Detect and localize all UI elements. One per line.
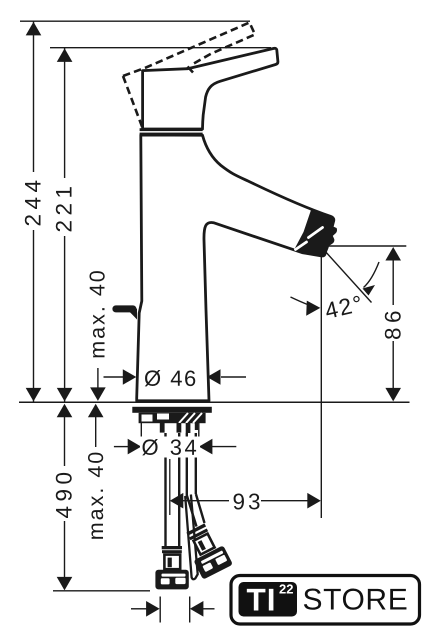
arrowhead max40 lower up <box>88 404 104 418</box>
arrowhead diameter34 left <box>128 439 142 455</box>
supply hose A right line <box>178 433 180 546</box>
42 degree arc arrow <box>364 262 380 288</box>
TI STORE logo box <box>231 576 420 625</box>
extension line top 244 <box>20 20 250 22</box>
arrowhead 244 top <box>26 22 42 36</box>
extension line top 221 <box>50 47 271 49</box>
dim line bottom width left <box>131 608 147 610</box>
svg-text:490: 490 <box>52 467 77 518</box>
extension line diameter34 right <box>198 423 200 447</box>
rod loop <box>185 495 198 580</box>
hose C connector angled <box>181 520 233 579</box>
dim line diameter34 right <box>211 446 236 448</box>
arrowhead max40 upper down <box>90 387 106 401</box>
aerator white slit 1 <box>309 228 323 238</box>
dim line bottom width right <box>202 608 215 610</box>
arrowhead 221 bottom <box>57 388 73 402</box>
tick bottom right <box>189 597 191 623</box>
dim line 93 horizontal <box>182 500 229 502</box>
pull rod thin line <box>169 459 171 515</box>
dim line 221 vertical <box>64 48 66 178</box>
dim line max40 lower <box>95 417 97 448</box>
arrowhead 490 bottom <box>57 577 73 591</box>
arrowhead diameter34 right <box>199 439 213 455</box>
handle ring lower bar <box>140 133 203 136</box>
supply hose C left line <box>186 433 188 496</box>
arrowhead bottom width left <box>146 601 160 617</box>
svg-text:221: 221 <box>52 181 77 232</box>
faucet body outline <box>137 135 334 401</box>
outlet height line <box>321 245 406 247</box>
dim line 86 vertical <box>392 259 394 305</box>
arrowhead bottom width right <box>190 601 204 617</box>
arrowhead 86 top <box>385 247 401 261</box>
spout aerator tip <box>295 210 337 256</box>
dim line diameter46 left <box>104 376 127 378</box>
hose C bend segment right <box>196 494 205 523</box>
arrowhead 490 top <box>57 404 73 418</box>
handle ring upper bar <box>140 128 203 131</box>
arrowhead 244 bottom <box>26 388 42 402</box>
mounting studs <box>160 423 198 433</box>
svg-text:TI: TI <box>246 582 276 618</box>
svg-text:max. 40: max. 40 <box>84 450 108 540</box>
arrowhead diameter46 left <box>123 369 137 385</box>
lever indicator mark <box>188 67 194 73</box>
svg-text:STORE: STORE <box>302 584 408 617</box>
hose C bend segment left <box>187 496 197 527</box>
dim line max40 upper <box>97 368 99 390</box>
tick bottom left <box>159 597 161 623</box>
arrowhead 86 bottom <box>385 388 401 402</box>
white backing for diameter 34 <box>140 437 200 458</box>
svg-text:93: 93 <box>232 489 263 514</box>
dim line 244 vertical <box>33 21 35 172</box>
pop-up rod knob <box>112 305 136 312</box>
svg-text:86: 86 <box>381 306 406 340</box>
svg-text:Ø 34: Ø 34 <box>141 435 199 460</box>
base plane line <box>19 401 410 403</box>
42 degree angled line <box>321 247 371 303</box>
hose A connector <box>155 546 188 589</box>
supply hose A left line <box>164 433 166 546</box>
arrowhead diameter46 right <box>207 369 221 385</box>
dim line diameter34 left <box>114 446 129 448</box>
mounting hardware tier <box>139 413 206 423</box>
extension line diameter34 left <box>140 423 142 447</box>
42 pointer arrow <box>291 297 308 305</box>
aerator white slit 2 <box>296 242 307 250</box>
arrowhead 93 left <box>170 493 184 509</box>
mounting flange bar <box>132 407 212 413</box>
arrowhead 93 right <box>307 493 321 509</box>
svg-text:Ø 46: Ø 46 <box>144 366 198 391</box>
svg-text:max. 40: max. 40 <box>86 268 110 358</box>
dim line 490 vertical <box>64 416 66 466</box>
dashed handle rotated <box>123 23 255 131</box>
tick line 490 bottom <box>53 590 150 592</box>
dim line diameter46 right <box>221 376 246 378</box>
svg-text:22: 22 <box>279 582 293 597</box>
svg-text:244: 244 <box>21 175 46 226</box>
handle lever solid <box>143 48 278 129</box>
supply hose C right line <box>195 433 197 494</box>
arrowhead 221 top <box>57 48 73 62</box>
outlet projection vertical line <box>320 247 322 518</box>
TI logo black box <box>239 582 298 617</box>
